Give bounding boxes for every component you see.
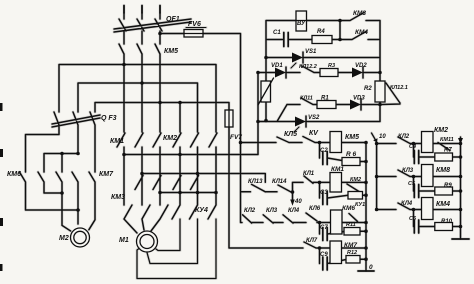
svg-text:КМ2: КМ2: [434, 127, 448, 134]
svg-text:R 6: R 6: [346, 151, 357, 158]
svg-text:КУ4: КУ4: [195, 207, 208, 214]
svg-text:С7: С7: [320, 225, 328, 231]
svg-text:VD3: VD3: [353, 96, 365, 102]
svg-text:R2: R2: [364, 86, 372, 92]
svg-text:КМ7: КМ7: [344, 242, 357, 249]
svg-text:0: 0: [369, 264, 373, 271]
svg-text:КМ4: КМ4: [436, 201, 450, 208]
svg-text:КМ1: КМ1: [331, 166, 344, 173]
svg-text:КЛ1: КЛ1: [303, 171, 315, 177]
svg-text:R12: R12: [347, 250, 357, 256]
svg-text:М1: М1: [119, 237, 129, 244]
svg-text:КЛ3: КЛ3: [266, 208, 278, 214]
svg-text:VD2: VD2: [355, 63, 367, 69]
svg-text:R7: R7: [444, 148, 452, 154]
svg-text:КЛ3: КЛ3: [402, 168, 414, 174]
svg-text:КЛ5: КЛ5: [284, 131, 297, 138]
svg-text:КМ3: КМ3: [111, 194, 125, 201]
svg-text:С1: С1: [273, 30, 281, 36]
svg-text:КМ7: КМ7: [99, 171, 114, 178]
svg-text:R4: R4: [317, 29, 325, 35]
svg-text:VS1: VS1: [305, 49, 317, 55]
svg-text:R3: R3: [328, 63, 335, 69]
svg-text:КУ1: КУ1: [355, 202, 365, 208]
svg-text:КМ8: КМ8: [436, 167, 450, 174]
svg-text:КЛ6: КЛ6: [309, 206, 321, 212]
svg-text:VS2: VS2: [308, 115, 320, 121]
svg-text:R11: R11: [346, 222, 356, 228]
svg-text:FV6: FV6: [188, 21, 201, 28]
svg-text:М2: М2: [59, 235, 69, 242]
svg-text:КЛ12.1: КЛ12.1: [390, 85, 408, 91]
svg-text:КМ4: КМ4: [355, 29, 368, 36]
svg-text:КМ1: КМ1: [110, 138, 124, 145]
svg-text:С3: С3: [320, 190, 328, 196]
svg-text:ВУ: ВУ: [297, 21, 306, 27]
svg-text:Q F3: Q F3: [101, 115, 117, 122]
svg-text:КЛ4: КЛ4: [288, 208, 300, 214]
svg-text:КЛ4: КЛ4: [401, 201, 413, 207]
svg-text:КМ11: КМ11: [440, 137, 454, 143]
svg-text:КМ3: КМ3: [353, 10, 366, 17]
svg-text:КЛ13: КЛ13: [248, 179, 263, 185]
svg-text:С2: С2: [320, 148, 328, 154]
svg-text:10: 10: [379, 134, 386, 140]
svg-text:С5: С5: [408, 181, 416, 187]
svg-text:R9: R9: [444, 183, 452, 189]
svg-text:VD1: VD1: [271, 63, 283, 69]
svg-text:КМ5: КМ5: [345, 134, 359, 141]
svg-text:40: 40: [294, 199, 302, 205]
svg-text:QF1: QF1: [166, 16, 180, 23]
svg-text:КЛ2: КЛ2: [398, 134, 410, 140]
svg-text:С9: С9: [320, 252, 328, 258]
svg-text:КЛ12.2: КЛ12.2: [299, 64, 317, 70]
svg-text:КМ2: КМ2: [350, 177, 361, 183]
svg-text:С4: С4: [409, 144, 416, 150]
svg-text:КV: КV: [309, 130, 319, 137]
svg-text:КМ6: КМ6: [7, 171, 21, 178]
svg-text:КЛ2: КЛ2: [244, 208, 256, 214]
svg-text:КМ6: КМ6: [342, 205, 355, 212]
svg-text:КМ2: КМ2: [163, 135, 177, 142]
svg-text:КМ5: КМ5: [164, 48, 178, 55]
svg-text:R10: R10: [441, 219, 453, 225]
svg-text:FV7: FV7: [230, 134, 242, 141]
svg-text:С6: С6: [409, 216, 417, 222]
svg-text:R1: R1: [321, 96, 329, 102]
svg-text:КЛ7: КЛ7: [306, 238, 318, 244]
svg-text:КЛ14: КЛ14: [272, 179, 287, 185]
svg-text:КЛ11: КЛ11: [300, 96, 313, 102]
